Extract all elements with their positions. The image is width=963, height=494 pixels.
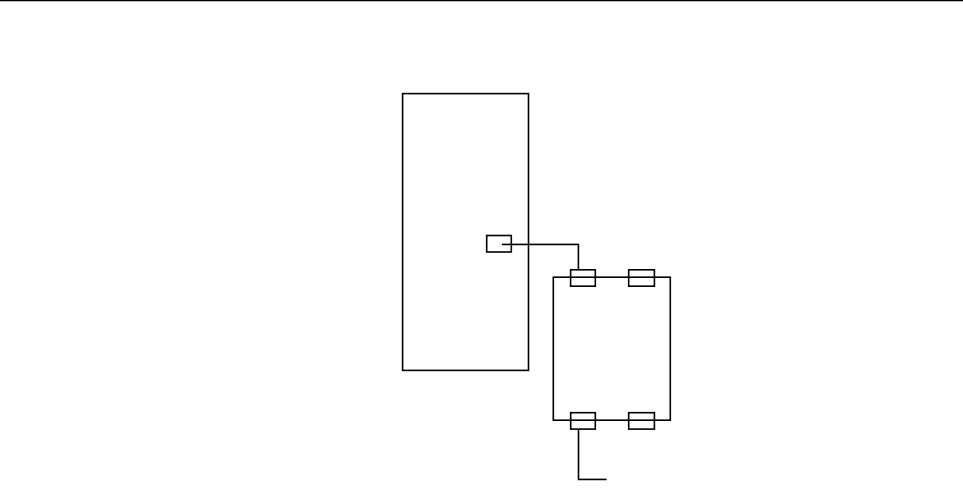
component U1 body: [403, 94, 529, 371]
wire from U2 pad 3 downward then right: [579, 429, 607, 479]
pin 1 of U1: [487, 236, 512, 253]
wire from U1 pin 1 to U2 pad 1: [502, 244, 579, 269]
pad 2 of U2 (top-right): [629, 270, 655, 286]
component U2 body: [553, 277, 670, 420]
pad 4 of U2 (bottom-right): [629, 413, 655, 429]
pad 1 of U2 (top-left): [571, 270, 596, 286]
pad 3 of U2 (bottom-left): [571, 413, 596, 429]
